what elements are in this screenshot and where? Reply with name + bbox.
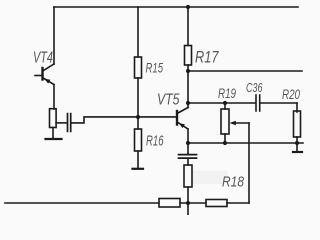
- svg-text:VT4: VT4: [33, 50, 53, 67]
- svg-text:R20: R20: [282, 87, 300, 102]
- svg-text:R19: R19: [218, 86, 236, 101]
- svg-text:R17: R17: [195, 48, 219, 67]
- svg-text:C36: C36: [246, 80, 263, 95]
- svg-text:R15: R15: [146, 60, 164, 76]
- svg-text:R16: R16: [146, 133, 164, 150]
- svg-text:VT5: VT5: [157, 92, 180, 109]
- svg-text:R18: R18: [222, 174, 245, 191]
